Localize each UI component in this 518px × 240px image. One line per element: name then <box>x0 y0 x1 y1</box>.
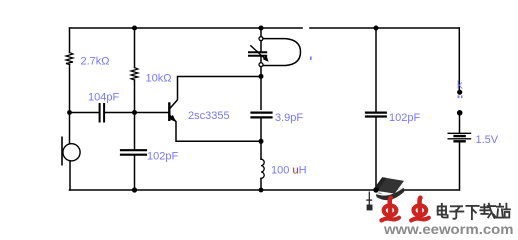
svg-text:2sc3355: 2sc3355 <box>188 110 230 122</box>
svg-text:k: k <box>457 80 463 92</box>
svg-text:100uH: 100uH <box>271 164 307 176</box>
svg-text:3.9pF: 3.9pF <box>275 112 303 124</box>
svg-text:102pF: 102pF <box>147 150 178 162</box>
svg-text:www.eeworm.com: www.eeworm.com <box>383 222 514 236</box>
svg-text:102pF: 102pF <box>389 112 420 124</box>
svg-text:104pF: 104pF <box>88 92 119 104</box>
svg-text:2.7kΩ: 2.7kΩ <box>81 55 110 67</box>
svg-text:10kΩ: 10kΩ <box>146 73 172 85</box>
svg-text:1.5V: 1.5V <box>476 134 499 146</box>
